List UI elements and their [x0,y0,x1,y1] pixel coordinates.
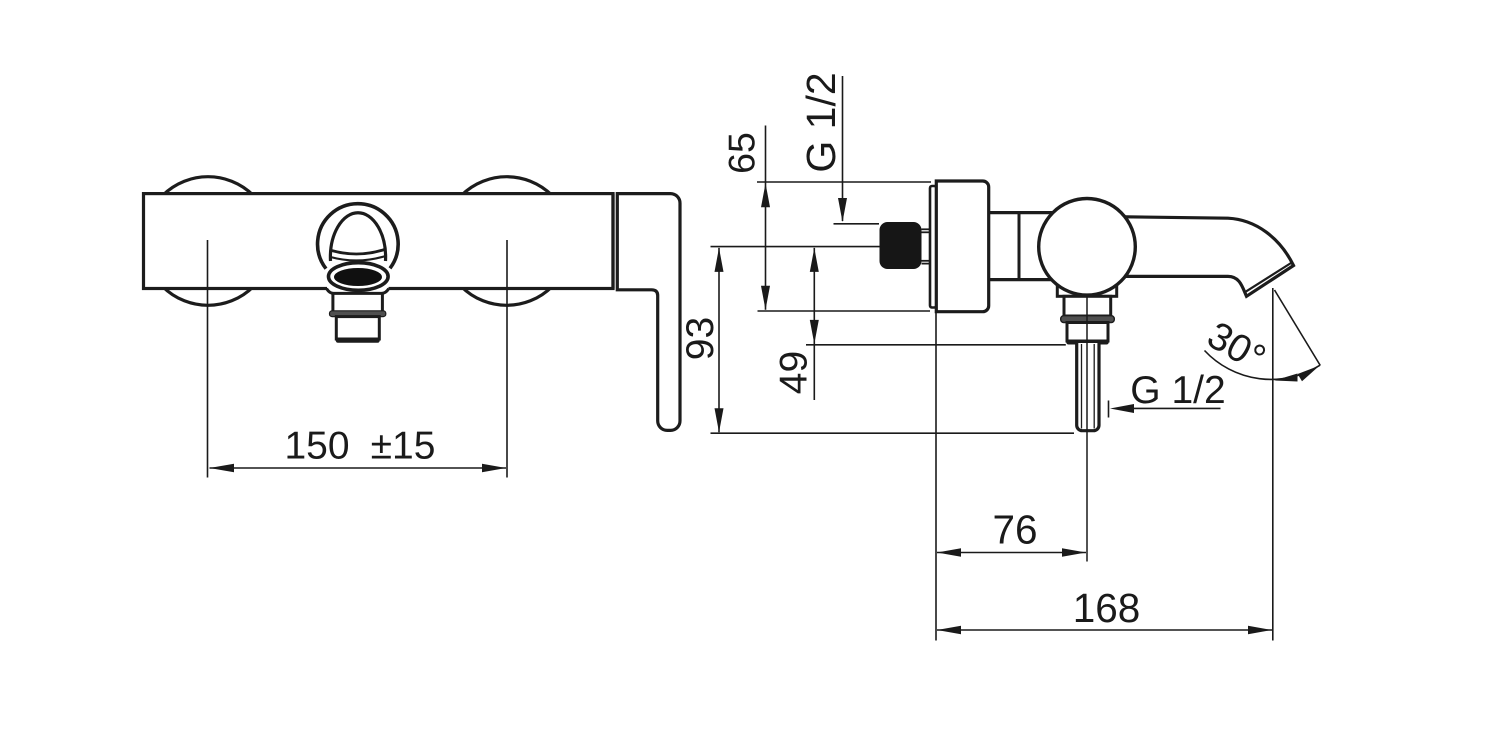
extension line right circle center [506,240,508,478]
G 1/2 right surface tick [1108,401,1110,418]
arrow 168 right [1248,626,1272,635]
arrow 49 bottom [810,320,819,344]
svg-text:G 1/2: G 1/2 [1130,369,1225,412]
shower outlet pipe [1077,343,1099,431]
svg-text:65: 65 [721,132,763,174]
spout neck ring upper [332,250,385,255]
30 degree angle arc [1205,351,1320,380]
svg-text:49: 49 [773,351,816,394]
168 dimension line [937,629,1272,631]
centerline of inlet [711,246,880,248]
G 1/2 top leader line [842,76,844,221]
outlet flange under body [1057,286,1116,296]
spout gap eraser [327,286,389,293]
svg-text:93: 93 [679,317,722,360]
faucet body rectangle [144,194,614,289]
spout outlet inner line [1246,263,1292,292]
arrow 76 right [1062,548,1086,557]
connecting pipe body bottom edge [989,278,1055,281]
extension line plate back [935,312,937,641]
76 dimension line [937,552,1086,554]
svg-text:G 1/2: G 1/2 [798,72,844,172]
arrow right of 150 [482,464,506,473]
spout (side view) [1110,217,1294,297]
outlet lower nut [1067,323,1108,342]
arrow 93 bottom [715,408,724,432]
body right end double line [611,194,614,289]
handle knob circle (side view) [1039,199,1136,296]
spout mouth black [334,268,382,286]
spout shoulder line [327,289,389,294]
plate top reference line [757,181,931,183]
svg-text:±15: ±15 [371,425,436,468]
spout connector upper left side [331,295,334,312]
inlet nipple lines [922,229,931,263]
pipe thread inner line left [1081,344,1083,429]
arrow G 1/2 top leader [838,198,847,222]
lower nut bottom cap [1069,340,1107,345]
spout rim ellipse [329,263,389,291]
plate bottom reference line [758,310,931,312]
spout neck ring lower [331,256,386,261]
arrow 65 bottom [761,286,770,310]
spout connector bottom cap [338,338,378,343]
lever handle (front view) [617,194,680,431]
escutcheon plate (side) [936,181,988,312]
outlet o-ring [1061,316,1115,323]
extension line spout tip vertical [1272,288,1274,641]
arrow G 1/2 right leader [1110,404,1134,413]
extension line shower pipe center [1086,296,1088,562]
arrow 168 left [937,626,961,635]
arrow 76 left [937,548,961,557]
arrow left of 150 [210,464,235,473]
outlet upper nut [1064,296,1111,316]
spout connector o-ring [330,311,386,317]
arrow 65 top [761,183,770,207]
escutcheon circle left [144,177,273,306]
escutcheon circle right [442,177,571,306]
arrow angle arc at slanted line [1298,366,1320,382]
extension line left circle center [207,240,209,478]
G 1/2 top surface tick [834,223,880,225]
dimension line 150 [210,467,507,469]
93 bottom reference line [711,432,1075,434]
30 degree slanted line [1275,290,1321,366]
arrow 93 top [715,248,724,272]
body joint vertical line [1018,213,1021,280]
49 bottom reference line [806,344,1066,346]
arrow 49 top [810,248,819,272]
svg-text:76: 76 [992,507,1037,553]
93 dimension line [718,248,720,432]
49 dimension line [813,248,815,400]
spout loop outer [318,204,399,269]
G 1/2 right leader line [1133,407,1221,409]
65 dimension line [765,126,767,310]
spout connector lower [336,317,379,339]
pipe thread inner line right [1093,344,1095,429]
spout connector upper right side [381,295,384,312]
svg-text:168: 168 [1073,585,1141,631]
connecting pipe body top edge [989,211,1055,214]
escutcheon flange (side) [930,186,936,308]
dimension 150 +-15 [208,240,508,478]
arrow angle arc at vertical line [1274,374,1297,382]
svg-text:150: 150 [284,425,349,468]
spout loop inner [330,213,385,261]
wall inlet black block [880,222,922,269]
